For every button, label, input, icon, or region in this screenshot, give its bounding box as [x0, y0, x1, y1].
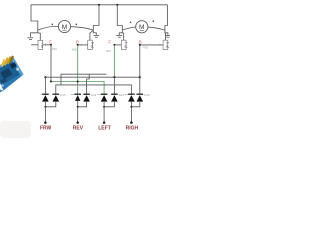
svg-text:LEFT: LEFT — [98, 126, 111, 132]
wire rail corner to switch SW-D — [165, 5, 168, 30]
wire bus h1 down to diode D14b — [113, 77, 115, 94]
motor M2 — [136, 21, 148, 33]
wire SW-C ground stub — [119, 30, 122, 35]
node bus h1 x45 junction dot — [44, 76, 46, 78]
wire bus h1 (net F rail) — [45, 76, 139, 78]
svg-text:RB2: RB2 — [143, 46, 149, 50]
wire FRW terminal — [44, 101, 46, 123]
relay coil RL2 — [88, 40, 94, 49]
wire RL1 right pin to node F — [43, 44, 51, 46]
svg-text:REV: REV — [73, 126, 84, 132]
pin nubs RL2 right — [92, 43, 93, 48]
relay coil RL3 — [121, 40, 127, 49]
node FRW join dot — [44, 106, 46, 108]
svg-text:B: B — [76, 39, 79, 44]
wire SW-D ground stub — [165, 30, 168, 35]
svg-text:M: M — [62, 24, 68, 31]
wire bus h3 (D1R to D4L) — [56, 85, 132, 94]
switch SW-B lever — [90, 30, 94, 33]
switch SW-A lever to motor M1 left — [38, 27, 59, 31]
wire top supply rail — [31, 4, 167, 6]
svg-text:MF2: MF2 — [106, 49, 112, 53]
node bus h1 x140 junction dot — [139, 76, 141, 78]
wire rail drop to switch SW-C — [117, 5, 122, 30]
wire dogleg from bus h3 to diode D12b — [61, 74, 106, 85]
node motor M1 + terminal dot left — [52, 24, 54, 26]
node bus h2 x77 junction dot — [77, 80, 79, 82]
pin tick RL2 — [80, 44, 82, 46]
wire SW-D common to relay coil RL4 — [164, 33, 167, 40]
node REV join dot — [77, 106, 79, 108]
diode D10 B — [53, 94, 60, 102]
node B2 junction dot — [139, 44, 141, 46]
pin nubs RL4 right — [168, 43, 169, 48]
wire bus h1 down to diode D10a — [44, 77, 46, 94]
wire rail drop to switch SW-B — [93, 5, 99, 30]
wire bus h2 (green net) — [51, 82, 104, 95]
wire LEFT terminal — [103, 101, 105, 123]
pin tick D16 left — [125, 93, 129, 95]
wire node F2 to RL3 left pin — [114, 44, 121, 46]
pin tick D10 left — [41, 93, 43, 95]
wire RIGH column join — [131, 101, 139, 107]
wire motor M1 right to SW-B — [71, 27, 94, 31]
ground GND1 — [28, 38, 34, 40]
wire RL1 left pin — [31, 44, 38, 46]
wire node F down to green bus — [50, 45, 52, 82]
wire rail drop to switch SW-A — [31, 5, 38, 30]
node F2 junction dot — [113, 44, 115, 46]
switch SW-C lever to motor M2 left — [122, 27, 136, 30]
svg-text:RIGH: RIGH — [126, 126, 139, 132]
node REV terminal dot — [76, 121, 79, 124]
wire SW-C common to relay coil RL3 — [122, 33, 123, 40]
diode D12 B — [83, 94, 90, 102]
ground GND3 — [116, 36, 122, 38]
svg-text:M: M — [139, 24, 145, 31]
svg-text:-D12: -D12 — [90, 93, 97, 97]
node RIGH join dot — [130, 106, 132, 108]
node top rail junction (SW-B feed) — [98, 4, 100, 6]
node FRW terminal dot — [44, 121, 47, 124]
diode D16 A — [128, 94, 135, 102]
wire dogleg stub to diode D12b — [87, 74, 90, 94]
pin tick D14 left — [97, 93, 101, 95]
svg-text:-D10: -D10 — [60, 93, 67, 97]
node top rail junction (SW-C feed) — [116, 4, 118, 6]
svg-text:F: F — [49, 39, 52, 44]
wire node B down to diode D12a (green net) — [77, 45, 79, 94]
wire bus h1 down to diode D16b — [139, 77, 141, 94]
diode D10 A (cathode bar) — [42, 94, 49, 102]
wire REV column join — [78, 101, 87, 107]
node F (left) junction dot — [50, 44, 52, 46]
node LEFT terminal dot — [103, 121, 106, 124]
node motor M1 terminal dot right — [76, 24, 78, 26]
svg-text:-D16: -D16 — [144, 93, 151, 97]
wire REV terminal — [77, 101, 79, 123]
svg-text:B: B — [139, 39, 142, 44]
node bus h2 x51 junction dot — [50, 80, 52, 82]
node motor M2 terminal dot left — [130, 22, 132, 24]
node RIGH terminal dot — [130, 121, 133, 124]
pin tick RL1 — [44, 44, 46, 46]
svg-text:F: F — [108, 39, 111, 44]
motor M1 — [58, 20, 70, 32]
wire SW-A common to ground stub — [31, 30, 38, 37]
pin tick D12 left — [70, 93, 74, 95]
diode D14 A — [101, 94, 108, 102]
wire FRW column join — [45, 101, 55, 107]
node LEFT join dot — [103, 106, 105, 108]
wire node B2 down to bus — [139, 45, 141, 77]
relay coil RL4 — [163, 40, 169, 49]
diode D12 A — [74, 94, 81, 101]
wire SW-A common to relay coil RL1 — [38, 33, 41, 41]
svg-text:RB1: RB1 — [52, 47, 58, 51]
svg-text:FRW: FRW — [40, 126, 52, 132]
pin nubs RL3 right — [126, 43, 127, 48]
wire SW-B ground stub — [93, 30, 96, 35]
node B (left) junction dot — [77, 44, 79, 46]
svg-text:-D14: -D14 — [118, 93, 125, 97]
ground GND4 — [165, 36, 171, 38]
node motor M2 terminal dot right — [153, 20, 155, 22]
module U1 (bluetooth PCB photo, tilted) — [0, 55, 24, 96]
ground GND2 — [93, 36, 99, 38]
node bus h1 x114 junction dot — [113, 76, 115, 78]
wire SW-B common to relay coil RL2 — [89, 33, 91, 40]
switch SW-D lever to motor M2 right — [148, 27, 165, 30]
diode D14 B — [111, 94, 118, 102]
relay coil RL1 — [38, 40, 44, 49]
wire node B to RL2 left pin — [78, 44, 88, 46]
wire node B2 to RL4 left pin — [140, 44, 163, 46]
wire node F2 down to bus (green net) — [113, 45, 115, 77]
wire LEFT column join — [104, 101, 114, 107]
pin tick RL4 — [159, 44, 161, 46]
svg-text:MB1: MB1 — [72, 47, 78, 51]
diode D16 B — [137, 94, 144, 102]
wire RIGH terminal — [130, 101, 132, 123]
